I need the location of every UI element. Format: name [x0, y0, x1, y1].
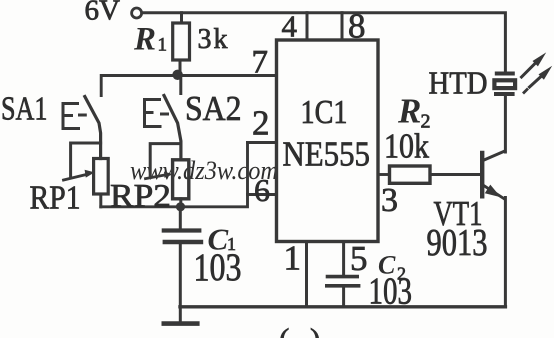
svg-text:103: 103	[369, 271, 413, 313]
transistor Q1 emitter	[484, 186, 504, 199]
svg-text:103: 103	[194, 246, 242, 289]
switch SA2 actuator E	[145, 100, 168, 127]
wire: collector to HTD	[504, 96, 507, 153]
switch SA2 blade	[164, 96, 181, 160]
svg-text:1: 1	[158, 35, 168, 56]
wire: pin 1 lead	[305, 242, 308, 307]
svg-text:5: 5	[350, 239, 368, 278]
svg-text:RP1: RP1	[30, 180, 81, 217]
wire: pin 5 lead	[342, 242, 345, 275]
transistor Q1 collector	[484, 151, 505, 160]
sound arrow 1	[522, 64, 536, 78]
wire: pin 6 stub	[248, 193, 277, 196]
transistor Q1 base bar	[480, 153, 484, 196]
buzzer HTD body	[494, 74, 515, 95]
wire: R2 to base	[430, 173, 480, 176]
svg-text:8: 8	[348, 7, 366, 46]
svg-text:RP2: RP2	[110, 179, 171, 215]
RP1 wiper arrowhead	[85, 170, 95, 178]
wire: C1 bottom lead	[179, 244, 182, 307]
wire: RP1 bottom	[99, 194, 102, 207]
svg-text:3k: 3k	[198, 24, 228, 55]
switch SA1 blade	[85, 97, 101, 159]
wire: emitter down	[504, 198, 507, 307]
svg-text:HTD: HTD	[429, 65, 488, 101]
switch SA1 actuator E	[63, 104, 85, 129]
wire: pin 2 stub	[248, 141, 277, 144]
node: junction RP2/C1 on lower bus	[176, 202, 185, 211]
svg-text:R: R	[397, 92, 421, 131]
wire: RP1 wiper arrow	[64, 174, 88, 180]
svg-text:7: 7	[252, 45, 269, 81]
wire: pin 4 stub	[306, 13, 309, 40]
sound arrowhead 1	[533, 52, 547, 66]
wire: pin 8 stub	[341, 13, 344, 40]
svg-text:6: 6	[254, 172, 270, 208]
svg-text:9013: 9013	[427, 222, 488, 264]
wire: R1 bottom stub	[179, 60, 182, 76]
ground	[164, 307, 198, 324]
wire: C1 top lead	[179, 207, 182, 229]
wire: +6V top rail	[142, 13, 505, 72]
svg-text:2: 2	[252, 104, 270, 143]
capacitor C2	[327, 277, 359, 286]
RP2 wiper arrowhead	[164, 172, 173, 178]
IC U1 NE555 box	[277, 40, 379, 242]
svg-text:3: 3	[381, 182, 398, 219]
svg-text:SA2: SA2	[185, 89, 242, 128]
potentiometer RP2	[173, 160, 189, 199]
node: junction R1/SA2 on bus	[172, 70, 182, 80]
resistor R2	[390, 166, 431, 183]
wire: RP2 bottom stub	[179, 199, 182, 207]
svg-text:NE555: NE555	[283, 135, 371, 174]
svg-text:R: R	[133, 22, 156, 58]
svg-text:(: (	[279, 322, 289, 338]
wire: ground rail	[180, 305, 505, 308]
svg-text:10k: 10k	[384, 127, 429, 166]
svg-text:): )	[310, 322, 320, 338]
wire: C2 bottom lead	[342, 288, 345, 307]
svg-text:SA1: SA1	[1, 91, 48, 128]
terminal 6V	[132, 8, 142, 18]
wire: bus to pin 7	[101, 76, 276, 96]
capacitor C1	[164, 231, 201, 243]
wire: RP2 wiper loop	[150, 144, 181, 176]
sound arrowhead 2	[539, 66, 553, 80]
svg-text:1C1: 1C1	[301, 94, 348, 131]
wire: RP1 wiper loop	[71, 143, 101, 177]
wire: RP2 wiper arrow	[146, 175, 167, 179]
wire: lower bus to pins 2,6	[101, 143, 248, 207]
wire: pin 3 stub	[378, 173, 390, 176]
wire: SA2 top stub	[179, 76, 182, 94]
potentiometer RP1	[94, 159, 109, 195]
svg-text:6V: 6V	[85, 0, 121, 27]
emitter arrowhead	[485, 185, 501, 198]
resistor R1	[173, 23, 190, 60]
sound arrow 2	[524, 77, 541, 93]
wire: R1 top stub	[180, 13, 183, 23]
svg-text:4: 4	[282, 9, 298, 44]
svg-text:1: 1	[284, 239, 302, 278]
